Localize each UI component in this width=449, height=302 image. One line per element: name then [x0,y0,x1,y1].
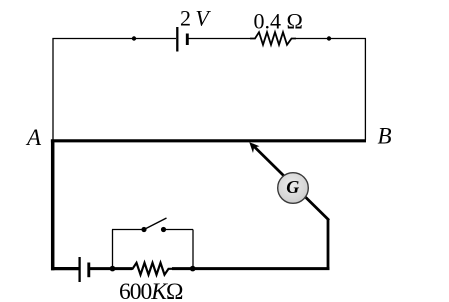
wire: top horizontal, right segment resistor to corner [296,38,366,40]
node: junction dot on top-left wire [132,36,136,40]
wire: top horizontal, left segment to battery [52,38,176,40]
wire: thick bottom horizontal, resistor to right junction [172,267,194,270]
switch S: lever arm [144,218,167,230]
battery B2: short plate [87,263,90,278]
node: junction dot at left of parallel combination [110,266,116,272]
wire: top horizontal, middle segment battery to resistor [189,38,251,40]
wire: top loop right vertical [364,39,366,141]
wire: diagonal jockey wire through galvanometer [252,145,329,221]
svg-text:G: G [286,177,299,197]
battery 2V: short plate [186,34,189,46]
battery 2V: long plate [176,27,178,52]
wire: switch branch top-left segment [112,229,144,231]
wire: thick bottom horizontal, battery to parallel combo [90,267,132,270]
wire: parallel box left vertical [112,230,114,269]
switch S: left contact dot [141,227,146,232]
wire: thick bottom horizontal, to right corner [194,267,329,270]
wire: top loop left vertical [52,39,54,141]
svg-text:0.4 Ω: 0.4 Ω [254,9,303,34]
wire: parallel box right vertical [192,230,194,269]
wire: switch branch top-right segment [164,229,194,231]
svg-text:A: A [25,125,42,150]
wire: thick left vertical from A down [51,140,55,271]
switch S: right contact dot [161,227,166,232]
resistor R2 600Kohm: zigzag [128,263,172,275]
node: junction dot at right of parallel combination [190,266,196,272]
wire: A-B potentiometer wire (thick) [51,139,366,142]
arrowhead: jockey contact touching wire AB [249,142,259,153]
galvanometer G: body circle [278,173,309,204]
battery B2: long plate [78,257,80,282]
svg-text:B: B [378,124,392,149]
wire: thick right vertical up to diagonal corner [327,219,330,270]
svg-text:600KΩ: 600KΩ [119,279,183,302]
resistor R1 0.4ohm: zigzag [250,32,296,45]
wire: thick bottom horizontal, A to battery [51,267,79,270]
svg-text:2 V: 2 V [180,6,211,31]
node: junction dot on top-right wire [327,36,331,40]
